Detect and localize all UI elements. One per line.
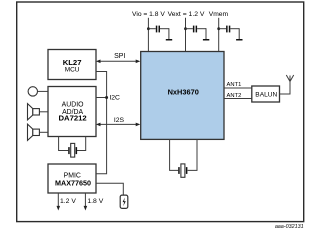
- svg-text:MAX77650: MAX77650: [55, 179, 91, 188]
- svg-text:Vmem: Vmem: [209, 11, 229, 18]
- svg-text:I2S: I2S: [114, 117, 125, 124]
- svg-text:DA7212: DA7212: [58, 113, 86, 122]
- svg-text:I2C: I2C: [109, 95, 120, 102]
- svg-text:Vext = 1.2 V: Vext = 1.2 V: [168, 11, 205, 18]
- svg-text:BALUN: BALUN: [255, 91, 277, 98]
- svg-text:aaa-032131: aaa-032131: [275, 224, 304, 230]
- svg-text:1.8 V: 1.8 V: [87, 198, 103, 205]
- svg-text:1.2 V: 1.2 V: [60, 198, 76, 205]
- svg-text:NxH3670: NxH3670: [168, 88, 199, 97]
- svg-text:ANT2: ANT2: [227, 93, 242, 99]
- svg-text:AUDIO: AUDIO: [62, 102, 84, 109]
- svg-text:ANT1: ANT1: [227, 82, 242, 88]
- svg-text:Vio = 1.8 V: Vio = 1.8 V: [132, 11, 165, 18]
- svg-text:SPI: SPI: [114, 53, 125, 60]
- svg-text:MCU: MCU: [65, 67, 80, 74]
